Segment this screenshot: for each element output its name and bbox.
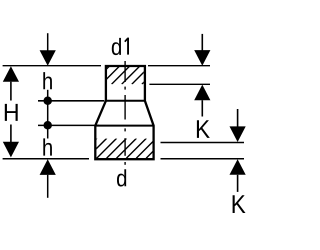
- bottom face extension line (left): [3, 158, 89, 160]
- insertion depth line K (lower right): [161, 142, 245, 144]
- label H: [5, 104, 18, 121]
- label h (top): [43, 72, 52, 89]
- hatching of bottom socket wall: [77, 138, 166, 158]
- dot node 1: [43, 97, 52, 106]
- label h (bottom): [43, 138, 52, 155]
- node line h1 (left, at dot 1): [38, 100, 104, 102]
- H dimension arrow down (bottom): [10, 125, 12, 143]
- label d1 (custom narrow 1 glyph): [127, 38, 129, 55]
- hatching of top spigot wall: [91, 66, 160, 84]
- reducer body outline: [95, 66, 153, 159]
- h dimension vertical line (through dots): [47, 90, 49, 139]
- reducer shoulder line (bottom of top spigot): [106, 100, 145, 102]
- K upper arrow down: [201, 34, 203, 51]
- arrow down, h top (stem + head): [47, 33, 49, 51]
- K upper arrow up: [194, 85, 210, 101]
- insertion depth line K (upper right): [149, 83, 210, 85]
- top face extension line (left): [3, 65, 101, 67]
- label K (upper): [197, 120, 210, 138]
- label K (lower): [233, 195, 246, 213]
- K lower arrow up: [230, 159, 246, 175]
- reducer seam line (top of bottom socket): [95, 125, 153, 127]
- bottom face extension line (right): [161, 158, 245, 160]
- K lower arrow down: [237, 109, 239, 127]
- dot node 2: [43, 121, 52, 130]
- node line h2 (left, at dot 2): [38, 124, 99, 126]
- centerline (vertical dash-dot axis): [124, 61, 126, 165]
- arrow up, h bottom (head + stem): [40, 159, 56, 175]
- label d: [117, 169, 126, 186]
- H dimension arrow up (top): [3, 66, 19, 82]
- top face extension line (right): [148, 65, 210, 67]
- label d1 (d glyph): [112, 38, 121, 55]
